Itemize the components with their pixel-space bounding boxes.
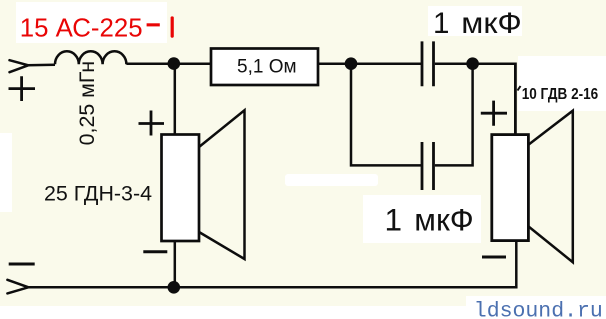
white patch behind bottom capacitor label [363, 195, 481, 243]
wire node A down to woofer [174, 64, 177, 135]
bottom rail wire [28, 241, 516, 288]
tick mark before tweeter label [518, 86, 521, 91]
svg-text:1: 1 [433, 7, 449, 40]
svg-text:ldsound.ru: ldsound.ru [474, 300, 603, 319]
label 1 мкФ (top) [433, 7, 522, 40]
resistor R1 5,1 Ом [211, 49, 318, 86]
wire parallel loop left and bottom [351, 64, 422, 166]
minus sign input [9, 263, 35, 266]
speaker woofer 25 ГДН-3-4 [162, 110, 245, 259]
capacitor C2 1 мкФ (bottom) [422, 142, 434, 190]
svg-text:0,25 мГн: 0,25 мГн [75, 61, 99, 145]
white patch behind top capacitor label [428, 6, 522, 36]
minus sign woofer [143, 250, 167, 253]
plus sign woofer [139, 111, 165, 136]
junction node D [168, 281, 181, 294]
white patch behind title [16, 2, 167, 43]
speaker tweeter 10 ГДВ 2-16 [492, 111, 573, 263]
junction node C [466, 57, 479, 70]
wire input to inductor [27, 64, 55, 67]
tweeter minus sign [482, 256, 506, 259]
tweeter plus sign [481, 101, 507, 126]
white patch band left of bottom capacitor label [285, 174, 378, 186]
svg-text:мкФ: мкФ [414, 201, 473, 237]
svg-text:1: 1 [385, 201, 403, 237]
junction node B [345, 57, 358, 70]
white patch behind tweeter label [518, 56, 606, 111]
svg-text:мкФ: мкФ [461, 7, 522, 40]
terminal output - (fork) [7, 280, 28, 294]
terminal input + (fork) [10, 60, 29, 72]
wire corner down to tweeter [514, 63, 517, 137]
svg-text:25 ГДН-3-4: 25 ГДН-3-4 [44, 181, 152, 205]
capacitor C1 1 мкФ (top) [422, 41, 434, 86]
plus sign input [9, 76, 36, 101]
title 15 АС-225 [20, 14, 174, 42]
wire woofer down to bottom rail [174, 241, 177, 288]
wire resistor to capacitor C1 [318, 62, 422, 65]
wire parallel loop right side [435, 64, 473, 166]
inductor L1 [55, 51, 126, 64]
white patch left edge [0, 133, 12, 212]
wire capacitor C1 to corner [435, 62, 517, 65]
svg-text:15 АС-225: 15 АС-225 [20, 14, 143, 42]
white strip bottom [0, 306, 606, 319]
svg-text:5,1 Ом: 5,1 Ом [237, 57, 297, 78]
junction node A [168, 57, 181, 70]
label 1 мкФ (bottom) [385, 201, 474, 237]
white patch behind watermark [466, 296, 606, 319]
svg-text:10 ГДВ 2-16: 10 ГДВ 2-16 [522, 86, 599, 103]
wire inductor to resistor [126, 62, 212, 65]
